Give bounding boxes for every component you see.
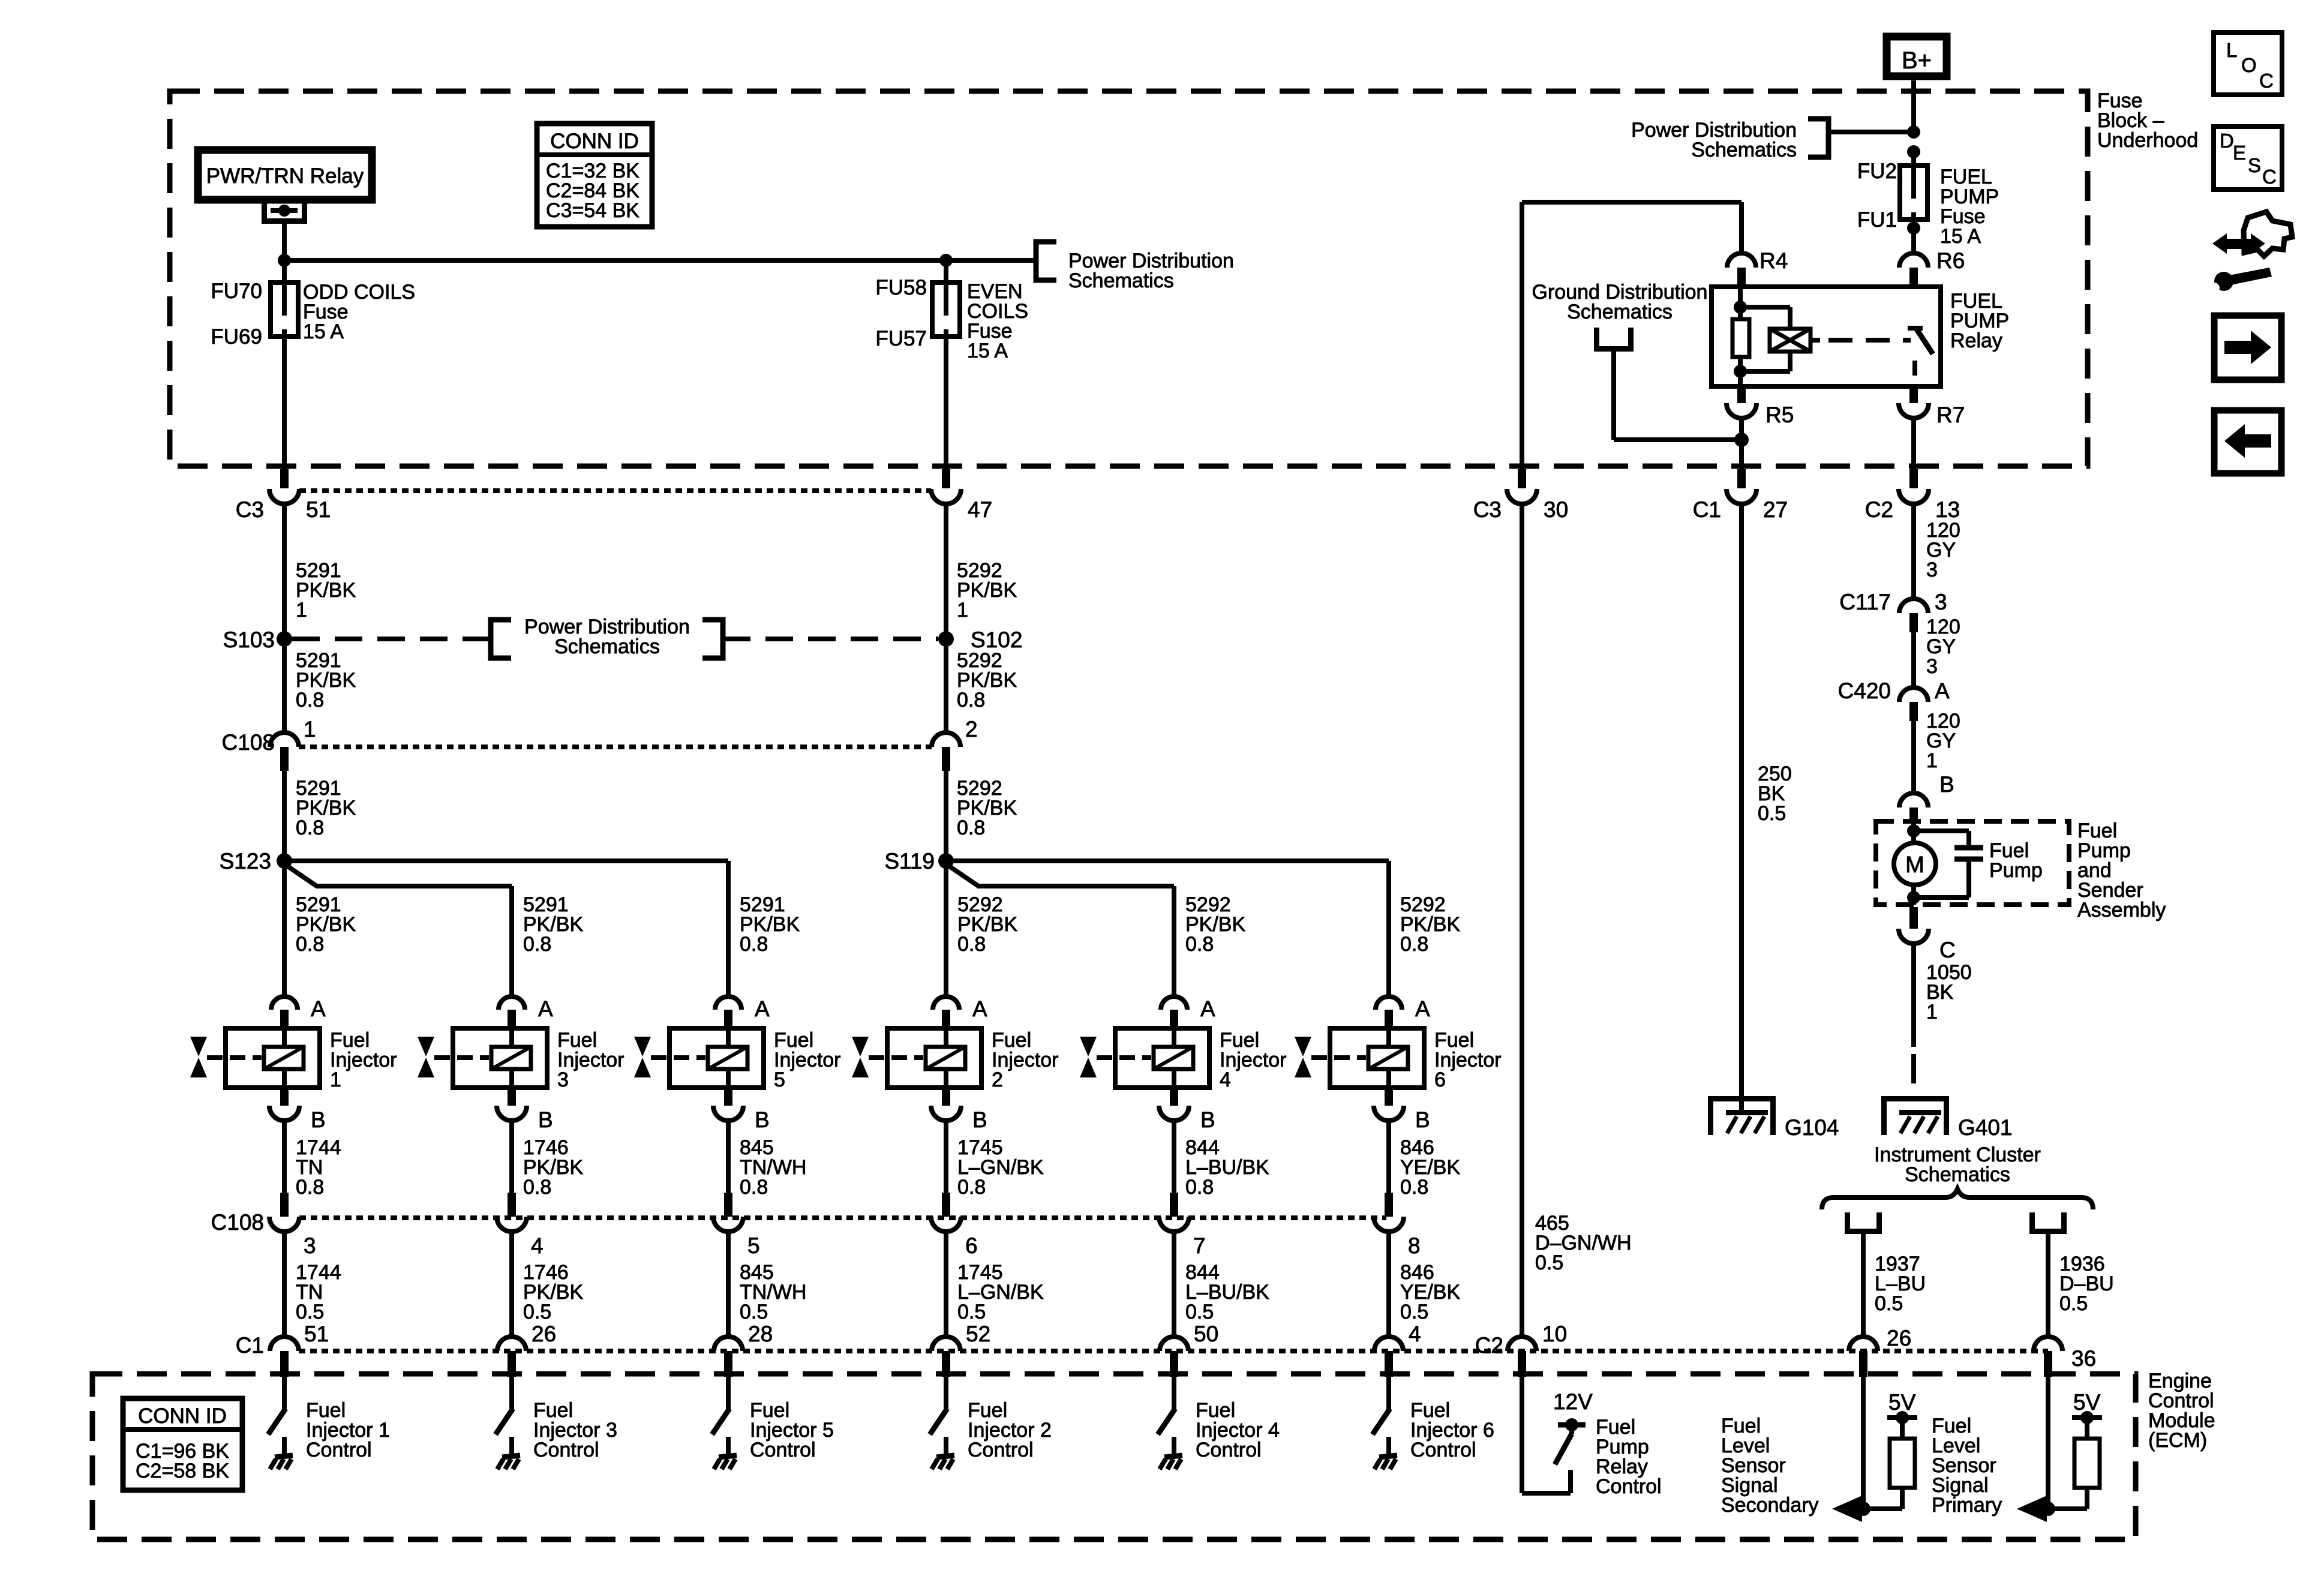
svg-text:10: 10 — [1542, 1322, 1567, 1346]
svg-text:B: B — [1415, 1107, 1430, 1132]
svg-text:FU70: FU70 — [211, 280, 262, 303]
svg-text:51: 51 — [306, 497, 331, 522]
svg-text:Schematics: Schematics — [1691, 139, 1797, 161]
svg-text:E: E — [2233, 142, 2246, 164]
svg-text:Schematics: Schematics — [1567, 301, 1673, 323]
svg-text:PWR/TRN Relay: PWR/TRN Relay — [206, 164, 364, 188]
svg-text:6: 6 — [1434, 1068, 1446, 1091]
svg-text:S: S — [2248, 154, 2261, 176]
svg-text:Control: Control — [1410, 1439, 1476, 1461]
svg-text:1: 1 — [296, 599, 307, 622]
svg-text:R4: R4 — [1759, 248, 1788, 273]
svg-text:C420: C420 — [1838, 679, 1891, 703]
svg-text:A: A — [1200, 996, 1215, 1021]
svg-text:(ECM): (ECM) — [2148, 1429, 2207, 1452]
svg-text:A: A — [755, 996, 770, 1021]
svg-text:C3: C3 — [236, 497, 264, 522]
svg-text:A: A — [311, 996, 326, 1021]
svg-text:Assembly: Assembly — [2077, 899, 2166, 921]
svg-text:0.8: 0.8 — [1185, 933, 1214, 956]
svg-text:Schematics: Schematics — [554, 635, 660, 658]
svg-text:4: 4 — [1220, 1068, 1231, 1091]
svg-text:B: B — [311, 1107, 326, 1132]
svg-text:Control: Control — [306, 1439, 372, 1461]
svg-text:0.5: 0.5 — [740, 1301, 768, 1323]
svg-text:FU58: FU58 — [875, 276, 927, 299]
svg-text:O: O — [2241, 54, 2257, 76]
svg-text:A: A — [1935, 679, 1950, 703]
svg-text:R5: R5 — [1765, 403, 1794, 427]
svg-text:L: L — [2226, 39, 2237, 61]
svg-text:1: 1 — [1926, 1001, 1938, 1023]
svg-text:51: 51 — [304, 1322, 329, 1346]
svg-text:Schematics: Schematics — [1068, 269, 1174, 292]
svg-text:C3=54 BK: C3=54 BK — [546, 199, 639, 222]
svg-text:G401: G401 — [1958, 1115, 2013, 1140]
svg-text:D: D — [2220, 130, 2234, 152]
svg-text:15 A: 15 A — [1940, 225, 1981, 248]
svg-text:3: 3 — [1926, 655, 1938, 678]
svg-text:Control: Control — [1596, 1475, 1662, 1498]
svg-text:C1: C1 — [1693, 497, 1721, 522]
svg-text:0.8: 0.8 — [957, 816, 985, 839]
svg-text:0.5: 0.5 — [1875, 1292, 1903, 1315]
svg-text:0.8: 0.8 — [957, 1176, 986, 1199]
svg-text:52: 52 — [966, 1322, 990, 1346]
svg-text:Control: Control — [968, 1439, 1034, 1461]
svg-text:FU2: FU2 — [1857, 160, 1897, 183]
svg-text:0.8: 0.8 — [296, 1176, 324, 1199]
svg-text:0.5: 0.5 — [296, 1301, 324, 1323]
svg-text:C108: C108 — [211, 1210, 264, 1235]
svg-text:3: 3 — [304, 1233, 316, 1258]
svg-text:CONN ID: CONN ID — [138, 1404, 227, 1428]
svg-text:0.8: 0.8 — [1400, 933, 1428, 956]
svg-text:0.8: 0.8 — [957, 933, 986, 956]
svg-text:Control: Control — [533, 1439, 599, 1461]
svg-text:3: 3 — [1926, 559, 1938, 581]
svg-text:1: 1 — [957, 599, 968, 622]
svg-text:0.5: 0.5 — [1758, 802, 1786, 825]
svg-text:Pump: Pump — [1989, 859, 2043, 882]
svg-text:50: 50 — [1194, 1322, 1218, 1346]
svg-text:0.8: 0.8 — [523, 933, 551, 956]
svg-text:30: 30 — [1544, 497, 1568, 522]
svg-text:8: 8 — [1408, 1233, 1421, 1258]
svg-text:M: M — [1905, 852, 1924, 878]
svg-text:Relay: Relay — [1950, 329, 2002, 352]
svg-text:C: C — [2262, 166, 2277, 188]
svg-text:1: 1 — [1926, 749, 1938, 772]
svg-text:Control: Control — [750, 1439, 816, 1461]
svg-text:4: 4 — [1409, 1322, 1421, 1346]
svg-text:47: 47 — [968, 497, 992, 522]
svg-text:B+: B+ — [1902, 47, 1932, 74]
svg-text:C2: C2 — [1475, 1333, 1503, 1358]
svg-text:1: 1 — [304, 717, 316, 742]
svg-text:S102: S102 — [971, 628, 1022, 652]
svg-text:0.8: 0.8 — [296, 689, 324, 712]
svg-text:C: C — [2259, 70, 2274, 92]
svg-text:B: B — [538, 1107, 553, 1132]
svg-text:6: 6 — [965, 1233, 978, 1258]
svg-text:FU69: FU69 — [211, 325, 262, 349]
svg-text:G104: G104 — [1785, 1115, 1839, 1140]
svg-text:C2=58 BK: C2=58 BK — [136, 1460, 229, 1482]
svg-text:0.5: 0.5 — [1535, 1251, 1563, 1274]
svg-text:Control: Control — [1196, 1439, 1262, 1461]
svg-text:R7: R7 — [1936, 403, 1965, 427]
svg-text:C3: C3 — [1473, 497, 1502, 522]
svg-text:Secondary: Secondary — [1721, 1494, 1819, 1517]
svg-text:A: A — [972, 996, 987, 1021]
svg-text:5: 5 — [774, 1068, 785, 1091]
svg-text:CONN ID: CONN ID — [550, 130, 639, 153]
svg-text:0.8: 0.8 — [740, 933, 768, 956]
svg-text:4: 4 — [531, 1233, 544, 1258]
svg-text:0.5: 0.5 — [1400, 1301, 1428, 1323]
svg-text:0.8: 0.8 — [296, 933, 324, 956]
svg-text:7: 7 — [1193, 1233, 1206, 1258]
svg-text:27: 27 — [1763, 497, 1788, 522]
svg-text:Underhood: Underhood — [2097, 129, 2198, 152]
svg-text:C117: C117 — [1839, 590, 1891, 614]
svg-text:0.8: 0.8 — [957, 689, 985, 712]
svg-text:36: 36 — [2071, 1346, 2096, 1371]
svg-text:5V: 5V — [1888, 1390, 1916, 1415]
svg-text:Schematics: Schematics — [1905, 1163, 2010, 1186]
svg-text:B: B — [972, 1107, 987, 1132]
svg-text:0.8: 0.8 — [523, 1176, 551, 1199]
svg-text:2: 2 — [992, 1068, 1003, 1091]
svg-text:28: 28 — [748, 1322, 773, 1346]
svg-text:B: B — [755, 1107, 770, 1132]
svg-text:15 A: 15 A — [303, 320, 344, 343]
svg-text:C108: C108 — [222, 730, 275, 755]
svg-text:0.5: 0.5 — [2059, 1292, 2088, 1315]
svg-text:C2: C2 — [1865, 497, 1893, 522]
svg-text:R6: R6 — [1936, 248, 1965, 273]
svg-text:FU57: FU57 — [875, 327, 927, 350]
svg-text:5: 5 — [747, 1233, 760, 1258]
svg-text:15 A: 15 A — [967, 340, 1008, 362]
svg-text:0.8: 0.8 — [296, 816, 324, 839]
svg-text:0.8: 0.8 — [1185, 1176, 1214, 1199]
svg-text:0.8: 0.8 — [1400, 1176, 1428, 1199]
svg-text:C1: C1 — [236, 1333, 264, 1358]
svg-text:26: 26 — [1887, 1326, 1911, 1350]
svg-text:0.8: 0.8 — [740, 1176, 768, 1199]
svg-text:0.5: 0.5 — [1185, 1301, 1214, 1323]
svg-text:1: 1 — [330, 1068, 341, 1091]
svg-text:S103: S103 — [223, 628, 275, 652]
svg-text:5V: 5V — [2073, 1390, 2101, 1415]
svg-text:0.5: 0.5 — [523, 1301, 551, 1323]
svg-text:26: 26 — [532, 1322, 556, 1346]
svg-text:C: C — [1939, 938, 1956, 962]
svg-text:13: 13 — [1935, 497, 1960, 522]
svg-text:S123: S123 — [220, 849, 271, 873]
svg-text:3: 3 — [557, 1068, 569, 1091]
svg-text:12V: 12V — [1553, 1389, 1593, 1414]
svg-text:2: 2 — [965, 717, 978, 742]
svg-text:B: B — [1939, 772, 1954, 797]
svg-text:A: A — [1415, 996, 1430, 1021]
svg-text:Primary: Primary — [1932, 1494, 2002, 1517]
svg-text:A: A — [538, 996, 553, 1021]
svg-text:3: 3 — [1935, 590, 1947, 614]
svg-text:B: B — [1200, 1107, 1215, 1132]
svg-text:S119: S119 — [884, 849, 935, 873]
svg-text:FU1: FU1 — [1857, 208, 1897, 232]
svg-text:0.5: 0.5 — [957, 1301, 986, 1323]
